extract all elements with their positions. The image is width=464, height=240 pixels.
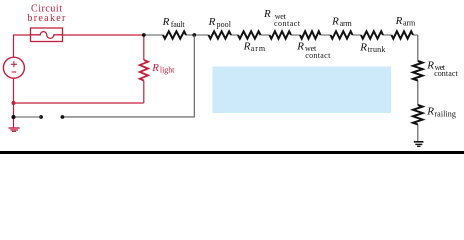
svg-text:trunk: trunk bbox=[368, 45, 386, 54]
resistor R6 arm bbox=[331, 31, 353, 38]
svg-text:arm: arm bbox=[251, 44, 266, 53]
node B (junction after R_fault) bbox=[192, 33, 196, 37]
resistor R_railing bbox=[413, 105, 423, 124]
svg-text:arm: arm bbox=[340, 19, 353, 28]
svg-text:R: R bbox=[426, 60, 434, 72]
svg-text:R: R bbox=[243, 41, 251, 53]
bottom border rule bbox=[0, 151, 464, 154]
resistor R2 pool bbox=[209, 31, 232, 38]
resistor R4 wet contact bbox=[270, 31, 292, 38]
svg-text:R: R bbox=[359, 41, 367, 53]
resistor R5 wet contact bbox=[300, 31, 321, 38]
svg-text:R: R bbox=[331, 15, 339, 27]
resistor R_wet contact (right) bbox=[413, 61, 423, 81]
wire: R_light bottom lead bbox=[143, 81, 145, 104]
resistor R8 arm bbox=[392, 31, 414, 38]
resistor R7 trunk bbox=[361, 31, 383, 38]
wire: top chain segments bbox=[144, 34, 418, 36]
wire: source top to breaker bbox=[14, 35, 31, 57]
wire: breaker to node A bbox=[63, 34, 144, 36]
resistor R3 arm bbox=[238, 31, 261, 38]
node E (ground node) bbox=[11, 115, 15, 119]
svg-text:contact: contact bbox=[434, 69, 458, 78]
svg-text:contact: contact bbox=[274, 19, 301, 28]
svg-text:fault: fault bbox=[171, 20, 186, 29]
svg-text:R: R bbox=[395, 15, 403, 27]
pool water bbox=[213, 67, 392, 114]
svg-text:R: R bbox=[162, 16, 170, 28]
resistor R1 fault bbox=[163, 31, 186, 38]
wire: source bottom down bbox=[13, 78, 15, 117]
wire: right vertical branch bbox=[417, 35, 419, 141]
svg-text:arm: arm bbox=[403, 19, 416, 28]
svg-text:R: R bbox=[208, 16, 216, 28]
wire: middle vertical return bbox=[62, 35, 194, 117]
svg-text:R: R bbox=[426, 106, 434, 118]
svg-text:pool: pool bbox=[217, 20, 232, 29]
svg-text:light: light bbox=[160, 66, 175, 75]
svg-text:contact: contact bbox=[305, 51, 331, 60]
wire: R_light top lead bbox=[143, 35, 145, 60]
node A (junction at R_light top) bbox=[142, 33, 146, 37]
svg-text:breaker: breaker bbox=[27, 13, 66, 24]
voltage source bbox=[3, 57, 24, 78]
svg-text:R: R bbox=[151, 62, 159, 74]
ground left bbox=[9, 119, 20, 131]
ground right bbox=[414, 142, 424, 147]
node D (gap left dot) bbox=[39, 115, 43, 119]
resistor R_light bbox=[140, 60, 148, 81]
circuit breaker bbox=[31, 28, 63, 42]
wire: bottom left segment bbox=[14, 116, 42, 118]
node C (gap right dot) bbox=[61, 115, 65, 119]
node: red junction bbox=[12, 101, 16, 105]
svg-text:railing: railing bbox=[434, 109, 456, 118]
svg-text:R: R bbox=[263, 8, 271, 20]
svg-text:R: R bbox=[296, 40, 304, 52]
wire: bottom red horizontal bbox=[14, 102, 144, 104]
